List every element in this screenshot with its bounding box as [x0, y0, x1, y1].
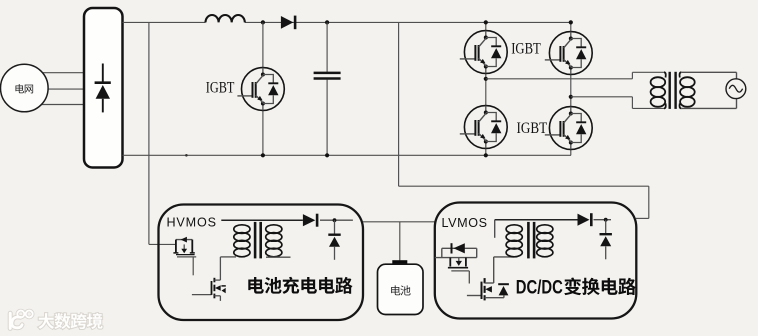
top DC rail	[123, 21, 206, 23]
IGBT Q5 (bridge bottom-right)	[545, 107, 592, 150]
diode D5 (clamp)	[600, 218, 612, 259]
transformer T1 core	[254, 222, 257, 259]
diode D2 (charger output)	[303, 214, 317, 227]
IGBT Q1 (boost switch)	[237, 68, 284, 111]
wire: feed to HVMOS charger	[148, 22, 150, 244]
wire: bridge output A	[486, 78, 633, 80]
wire battery tap	[399, 222, 401, 261]
transformer T1 top line	[221, 219, 303, 221]
watermark 大数跨境 halo	[38, 313, 102, 329]
wire: bridge output B	[571, 96, 633, 98]
IGBT Q4 (bridge top-right)	[545, 32, 592, 75]
IGBT Q2 (bridge top-left)	[460, 31, 507, 74]
label 变换电路 (conversion circuit)	[564, 278, 636, 296]
node: bridge left midpoint	[484, 77, 488, 81]
wire grid phase B	[40, 88, 84, 90]
transformer T3 core	[669, 72, 671, 109]
wire grid phase C	[32, 104, 84, 106]
svg-text:LVMOS: LVMOS	[442, 216, 488, 230]
diode D1 (boost)	[281, 16, 295, 30]
transformer T2 top line	[495, 219, 578, 221]
thyristor/diode symbol inside rectifier	[95, 64, 111, 113]
transformer T3 primary lead top	[664, 72, 666, 77]
watermark 大数跨境	[38, 313, 102, 329]
HVMOS battery charger block	[159, 205, 364, 321]
wire to block edge	[320, 219, 353, 221]
svg-text:IGBT: IGBT	[511, 41, 541, 58]
transformer T3 secondary winding	[680, 77, 695, 107]
label 电池充电电路 (battery charging circuit)	[248, 277, 352, 294]
svg-text:IGBT: IGBT	[206, 79, 235, 96]
wire: charger to battery/LVMOS	[363, 221, 435, 223]
H-bridge right leg wire	[570, 22, 572, 31]
wire: IGBT Q1 leg	[262, 22, 264, 67]
diode D4 (converter output)	[578, 213, 592, 226]
transformer T2 primary winding	[506, 225, 522, 257]
bottom DC rail	[123, 154, 572, 156]
AC load source symbol	[726, 79, 746, 99]
rectifier block	[84, 8, 123, 168]
wire: DC feed to LVMOS converter	[398, 22, 400, 186]
junction dot small on bottom rail	[185, 154, 188, 157]
node: bridge right midpoint	[569, 95, 573, 99]
transformer T1 primary winding	[234, 225, 250, 257]
capacitor C1	[325, 20, 329, 24]
transformer T1 secondary winding	[266, 225, 282, 257]
transformer T3 primary winding	[651, 77, 666, 107]
watermark logo	[10, 311, 33, 329]
label 电网 (grid)	[15, 84, 33, 93]
AC grid source circle	[1, 64, 49, 112]
battery terminal	[392, 260, 407, 264]
wire grid phase A	[30, 72, 84, 74]
transformer T3 secondary leads	[680, 72, 682, 77]
wire to clamp junction	[594, 219, 612, 221]
svg-text:HVMOS: HVMOS	[167, 215, 217, 229]
svg-text:DC/DC: DC/DC	[516, 277, 563, 298]
T1 secondary bottom lead	[266, 256, 291, 258]
node: boost switch top junction	[261, 20, 265, 24]
LVMOS DC/DC converter block	[435, 203, 637, 319]
MOSFET M2 (HVMOS lower)	[192, 257, 236, 301]
diode D3 (clamp)	[328, 218, 340, 259]
node: Q1 emitter to bottom rail	[261, 153, 265, 157]
MOSFET M4 (LVMOS lower)	[467, 257, 514, 301]
label 电池 (battery)	[391, 285, 410, 295]
H-bridge left leg wire	[485, 22, 487, 30]
transformer T2 secondary winding	[537, 225, 553, 257]
svg-text:IGBT: IGBT	[517, 120, 548, 137]
IGBT Q3 (bridge bottom-left)	[460, 106, 507, 149]
inductor L1	[206, 15, 245, 22]
MOSFET M1 (HVMOS upper)	[173, 237, 196, 276]
transformer T2 core	[527, 222, 530, 259]
battery body	[378, 264, 424, 314]
MOSFET M3 (LVMOS upper)	[435, 243, 477, 283]
